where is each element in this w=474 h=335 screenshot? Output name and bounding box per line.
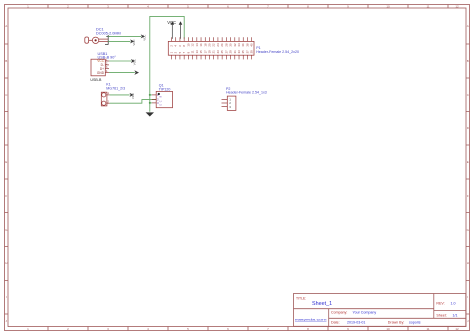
svg-text:VCC: VCC [132,39,136,45]
svg-text:Sheet:: Sheet: [436,313,446,317]
svg-text:Sheet_1: Sheet_1 [312,301,332,307]
svg-text:soporis: soporis [409,321,421,325]
wire DC1 pin2 to VCC [108,40,130,42]
net flag VCC (K1) [130,93,136,99]
ground [146,112,154,116]
wire USB1 GND [109,72,135,74]
net flag VCC (DC1 pin2) [130,39,136,45]
svg-text:Date:: Date: [331,321,340,325]
svg-text:F: F [5,194,7,198]
wire DC1 pin1 to VCC [108,35,141,37]
svg-text:E: E [467,160,469,164]
transistor Q1 [156,91,172,107]
svg-text:Header-Female 2.54_2x20: Header-Female 2.54_2x20 [256,50,299,54]
svg-text:1.0: 1.0 [451,301,456,305]
wire K1 pin1 to VCC [110,94,130,96]
net flag GND (USB1) [134,70,139,75]
svg-text:REV:: REV: [436,301,444,305]
svg-text:VCC: VCC [142,35,146,41]
svg-text:A: A [5,24,7,28]
svg-text:Drawn By:: Drawn By: [388,321,405,325]
svg-text:39: 39 [250,50,254,54]
wire VCC rail from header to Q1 [150,16,184,111]
wire Q1 emitter to ground [150,102,152,104]
svg-text:H: H [5,261,7,265]
header P2 labels [226,87,267,95]
header P1 top pin stubs [172,37,252,41]
svg-text:VCC: VCC [167,20,176,25]
svg-text:40: 40 [250,43,254,47]
svg-text:B: B [5,59,7,63]
junction node [149,94,151,96]
terminal K1 labels [106,83,125,91]
svg-text:10: 10 [386,327,390,331]
transistor Q1 labels [159,84,171,92]
svg-text:2019-03-01: 2019-03-01 [347,321,365,325]
header P1 pin numbers top row [170,43,254,47]
svg-text:I: I [6,295,7,299]
svg-text:12: 12 [455,327,459,331]
header P1 bottom pin stubs [172,55,252,59]
svg-text:B: B [467,59,469,63]
svg-text:H: H [467,261,469,265]
svg-text:P1: P1 [256,46,260,50]
svg-text:Company:: Company: [331,311,347,315]
svg-text:Header-Female 2.54_1x3: Header-Female 2.54_1x3 [226,91,267,95]
terminal K1 [101,92,107,106]
svg-text:11: 11 [426,5,429,9]
connector USB1 labels [98,52,117,60]
svg-text:Your Company: Your Company [353,311,377,315]
svg-text:MG761_2/3: MG761_2/3 [106,86,125,90]
svg-text:GND: GND [97,71,105,75]
svg-text:TIP120: TIP120 [159,87,171,91]
svg-text:TITLE:: TITLE: [296,296,306,300]
header P1 pin numbers bottom row [170,50,254,54]
wire USB1 VCC [109,60,131,62]
svg-text:E: E [5,160,7,164]
svg-text:USB-B: USB-B [90,78,102,82]
svg-text:11: 11 [426,327,429,331]
net flag VCC (DC1 pin1) [141,34,147,40]
svg-text:A: A [467,24,469,28]
svg-text:VCC: VCC [133,59,137,65]
svg-text:C: C [160,100,163,102]
svg-text:12: 12 [455,5,459,9]
svg-text:VCC: VCC [131,93,135,99]
title block [294,294,466,327]
svg-text:F: F [467,194,469,198]
header P2 [227,96,236,110]
svg-text:10: 10 [386,5,390,9]
connector DC1 [85,37,108,44]
header P1 labels [256,46,299,54]
connector USB1 [91,59,105,76]
net flag VCC (USB1) [131,59,137,65]
svg-text:1/1: 1/1 [453,313,458,317]
svg-text:easyeda.com: easyeda.com [295,317,327,321]
svg-text:I: I [467,295,468,299]
net flag VCC (header pins) [167,20,182,39]
connector DC1 labels [96,28,121,36]
header P1 [168,41,254,55]
wire K1 pin2 to Q1 base [110,100,157,104]
